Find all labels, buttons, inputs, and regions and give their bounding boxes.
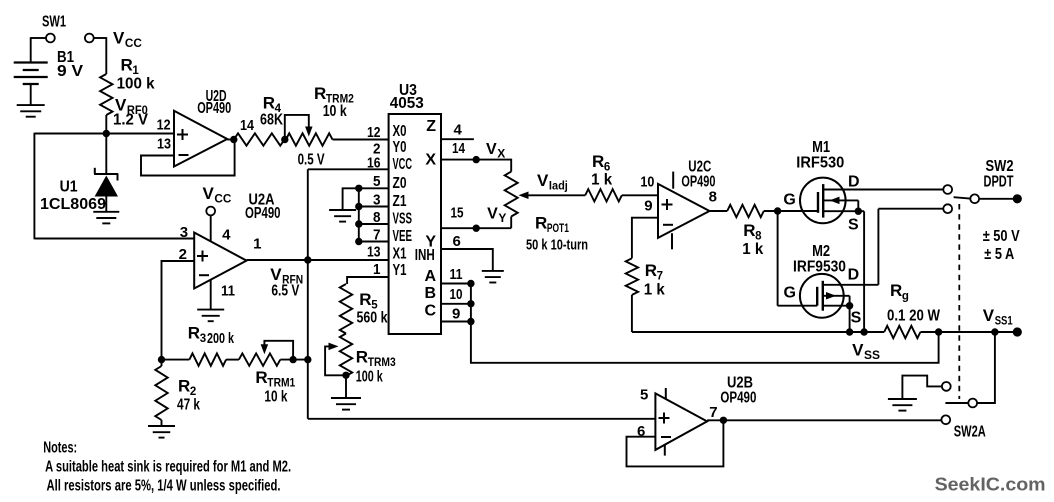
svg-text:14: 14	[452, 140, 466, 157]
resistor R3	[189, 353, 226, 365]
label M1	[812, 139, 830, 156]
svg-text:R: R	[121, 56, 133, 75]
label pin 11	[450, 266, 463, 283]
label pin 1	[253, 236, 261, 253]
U3 left pin names	[393, 123, 413, 279]
svg-text:1 k: 1 k	[742, 241, 763, 258]
terminal SW2 throw1	[943, 185, 952, 194]
svg-text:VCC: VCC	[393, 156, 413, 173]
label U2A OP490	[245, 205, 281, 222]
svg-text:SW2A: SW2A	[954, 424, 986, 441]
label pin 10c	[640, 174, 654, 191]
svg-text:SS: SS	[864, 350, 880, 362]
label U2D	[206, 88, 227, 105]
label IRF9530	[793, 259, 846, 276]
svg-text:VSS: VSS	[393, 210, 413, 227]
label R2 value	[177, 397, 200, 414]
wire VSS rail left	[632, 331, 884, 333]
wire R3 lead	[162, 359, 190, 361]
label R7	[645, 261, 663, 283]
op-amp U2C	[658, 172, 710, 250]
wire node to U2D+	[34, 133, 174, 135]
label RPOT1	[535, 214, 569, 236]
svg-text:V: V	[537, 171, 549, 190]
label 0.5V	[298, 152, 325, 169]
wire U3 pin4 stub	[441, 138, 474, 140]
label RTRM3 value	[356, 369, 383, 386]
svg-text:M1: M1	[812, 139, 830, 156]
label SW2	[986, 158, 1014, 175]
wire battery to SW1 terminal	[31, 37, 46, 62]
svg-text:10 k: 10 k	[323, 103, 347, 120]
battery B1	[14, 63, 48, 106]
label pin 8	[709, 189, 717, 206]
wire M2 source to VSS	[849, 306, 851, 332]
svg-text:CC: CC	[125, 38, 142, 50]
note line 2	[47, 477, 281, 494]
label RTRM3	[356, 348, 396, 370]
svg-text:IRF9530: IRF9530	[793, 259, 846, 276]
label R8	[743, 221, 762, 243]
svg-text:Notes:: Notes:	[43, 439, 77, 456]
svg-text:14: 14	[240, 117, 255, 134]
svg-text:V: V	[983, 306, 995, 325]
svg-text:± 5 A: ± 5 A	[984, 246, 1014, 263]
op-amp U2D	[174, 111, 227, 167]
label R1	[121, 56, 140, 78]
label pin 14	[240, 117, 255, 134]
label +-50V	[983, 228, 1020, 245]
svg-text:g: g	[902, 291, 909, 303]
svg-text:VEE: VEE	[393, 228, 413, 245]
label VSS	[852, 341, 880, 363]
svg-text:R: R	[263, 94, 275, 113]
label pin 10	[450, 286, 463, 303]
svg-text:Z0: Z0	[393, 175, 407, 192]
label R6 value	[591, 172, 612, 189]
ground below B1	[17, 105, 45, 117]
wire VSS1 to pole	[977, 332, 995, 403]
terminal SW2B pole	[968, 399, 977, 408]
label U3 pin 2	[373, 141, 381, 158]
svg-text:R: R	[535, 214, 547, 233]
label M2	[812, 243, 830, 260]
wire U2D output	[227, 139, 236, 141]
svg-text:Z1: Z1	[393, 193, 407, 210]
svg-text:100 k: 100 k	[117, 76, 155, 93]
note line 1	[45, 458, 291, 475]
note title	[43, 439, 77, 456]
node VY	[473, 225, 480, 232]
svg-text:SW1: SW1	[42, 14, 66, 31]
svg-text:15: 15	[451, 205, 464, 222]
wire U3 pin14 to pot	[441, 160, 511, 172]
wire RTRM3 to ground	[345, 375, 347, 398]
svg-text:CC: CC	[214, 194, 231, 206]
resistor Rg	[884, 326, 920, 338]
svg-text:68K: 68K	[260, 112, 283, 129]
IC U3 4053 box	[389, 114, 441, 334]
svg-text:9 V: 9 V	[57, 63, 83, 80]
label pin 15	[451, 205, 464, 222]
label S M2	[851, 309, 862, 326]
label VCC U2A	[203, 184, 232, 206]
wire U2B out to SW2A	[707, 419, 941, 421]
svg-text:G: G	[784, 285, 796, 302]
label G M2	[784, 285, 796, 302]
svg-text:B: B	[424, 285, 436, 302]
svg-text:R: R	[743, 221, 755, 240]
label 4053	[390, 95, 424, 112]
svg-text:13: 13	[367, 243, 381, 260]
wire R1 bottom	[105, 115, 107, 134]
node M1S rail	[860, 328, 867, 335]
svg-text:M2: M2	[812, 243, 830, 260]
label pin 3	[180, 224, 188, 241]
svg-text:SW2: SW2	[986, 158, 1014, 175]
svg-text:OP490: OP490	[245, 205, 281, 222]
terminal SW2 throw2	[943, 204, 952, 213]
label pin 4u	[222, 227, 231, 244]
wire U3 pin16	[308, 168, 389, 170]
svg-text:G: G	[783, 192, 795, 209]
svg-text:12: 12	[367, 124, 381, 141]
resistor R1	[100, 74, 112, 115]
svg-text:V: V	[852, 341, 864, 360]
wire U2B feedback	[627, 420, 724, 466]
svg-text:X0: X0	[393, 123, 407, 140]
resistor R5	[340, 284, 352, 334]
wire U2A pin11 stub	[210, 280, 212, 310]
svg-text:3: 3	[200, 333, 206, 345]
svg-text:TRM3: TRM3	[368, 357, 396, 369]
wire U2D feedback	[141, 140, 235, 176]
svg-text:Y1: Y1	[393, 262, 407, 279]
label U3 pin 1	[373, 261, 381, 278]
node M2S rail	[846, 328, 853, 335]
label D M2	[848, 267, 860, 284]
node U2D output	[230, 136, 237, 143]
label R3 value	[207, 330, 234, 347]
svg-text:Iadj: Iadj	[549, 181, 568, 193]
resistor R2	[155, 360, 167, 426]
node VSS rail split	[935, 328, 942, 335]
svg-text:X1: X1	[393, 246, 407, 263]
svg-text:4053: 4053	[390, 95, 424, 112]
svg-text:4: 4	[454, 122, 463, 139]
svg-text:100 k: 100 k	[356, 369, 383, 386]
label U3 pin 16	[367, 155, 381, 172]
label U3 pin 13	[367, 243, 381, 260]
label R8 value	[742, 241, 763, 258]
svg-text:560 k: 560 k	[357, 310, 388, 327]
svg-text:X: X	[497, 147, 505, 161]
ground U3 pin6	[482, 271, 504, 283]
resistor R4	[234, 133, 285, 145]
label U2B OP490	[720, 390, 756, 407]
label pin 7	[709, 404, 717, 421]
svg-text:7: 7	[709, 404, 717, 421]
dashed gang line	[958, 204, 960, 399]
label RTRM1	[255, 368, 295, 390]
wire U3 Y1 to R5	[347, 277, 389, 284]
svg-text:± 50 V: ± 50 V	[983, 228, 1020, 245]
svg-text:V: V	[203, 184, 215, 203]
label U3	[399, 82, 417, 99]
node gate split	[774, 207, 781, 214]
label R1 value	[117, 76, 155, 93]
wire VRFN vertical rail	[307, 169, 309, 418]
label IRF530	[796, 155, 844, 172]
terminal SW2B throw ground	[942, 382, 951, 391]
svg-text:INH: INH	[415, 247, 435, 264]
watermark SeekIC.com	[935, 473, 1046, 494]
label R6	[592, 152, 610, 174]
label pin 14r	[452, 140, 466, 157]
svg-text:OP490: OP490	[197, 100, 231, 117]
wires U3 pins 5-3-8-7	[359, 188, 389, 243]
terminal SW1	[46, 34, 55, 43]
svg-text:10: 10	[450, 286, 463, 303]
resistor R8	[727, 205, 764, 217]
wire VCC to R1	[94, 37, 107, 74]
wire U2C out	[710, 210, 728, 212]
label pin 12	[157, 117, 171, 134]
svg-text:R: R	[188, 324, 200, 343]
label B1 9V	[57, 49, 83, 80]
svg-text:0.1 20 W: 0.1 20 W	[887, 308, 941, 325]
wire R8 to M1 gate	[764, 210, 818, 212]
wiper arrow RPOT1	[519, 192, 586, 200]
svg-text:13: 13	[157, 136, 171, 153]
svg-text:S: S	[851, 309, 862, 326]
svg-text:V: V	[270, 265, 282, 284]
wire SW2B ground throw	[902, 376, 941, 399]
transistor M1	[800, 178, 943, 224]
svg-text:X: X	[425, 151, 436, 168]
ground below R2	[148, 426, 175, 438]
label VRF0	[115, 96, 148, 118]
node VSS1	[991, 328, 998, 335]
label R3	[188, 324, 206, 346]
svg-text:OP490: OP490	[720, 390, 756, 407]
label U3 pin 12	[367, 124, 381, 141]
svg-text:3: 3	[180, 224, 188, 241]
label 1CL8069	[40, 196, 106, 213]
label pin 11u	[221, 283, 235, 300]
potentiometer RPOT1	[505, 172, 518, 229]
ground U2A	[197, 310, 224, 322]
label D M1	[848, 174, 860, 191]
label U2C	[688, 159, 711, 176]
svg-text:1CL8069: 1CL8069	[40, 196, 106, 213]
svg-text:V: V	[486, 141, 497, 158]
label R5	[359, 290, 378, 312]
label SW2A	[954, 424, 986, 441]
svg-text:12: 12	[157, 117, 171, 134]
label pin 13	[157, 136, 171, 153]
wire VRFN to U3 X1	[247, 259, 389, 261]
terminal VCC U2A	[206, 207, 215, 216]
node RTRM1-rail	[304, 356, 311, 363]
U3 right pin names	[415, 118, 437, 320]
label pin 9	[452, 306, 460, 323]
wire R3-RTRM1	[226, 359, 239, 361]
label U3 pin 7	[373, 227, 381, 244]
label pin 5	[640, 387, 648, 404]
ground below U1	[93, 212, 119, 224]
wire gate down to M2	[778, 211, 818, 306]
wire ABC bus to VSS node	[471, 283, 939, 363]
node R2-R3	[158, 356, 165, 363]
label Rg value	[887, 308, 941, 325]
zener diode U1	[94, 168, 118, 212]
label R4	[263, 94, 282, 116]
svg-text:1 k: 1 k	[644, 282, 665, 299]
svg-text:SeekIC.com: SeekIC.com	[935, 473, 1046, 494]
node VRF0	[103, 130, 110, 137]
junction dots ABC	[467, 280, 474, 325]
svg-text:6: 6	[453, 233, 461, 250]
label S M1	[848, 217, 859, 234]
svg-text:S: S	[848, 217, 859, 234]
label R2	[178, 377, 196, 399]
resistor R6	[585, 189, 622, 201]
junction dots pins 5-3-8-7	[355, 185, 362, 246]
label U3 pin 3	[373, 192, 381, 209]
svg-text:Y: Y	[498, 211, 506, 225]
wire Rg to VSS1	[920, 331, 1017, 333]
wire U2A minus loop	[162, 261, 195, 360]
svg-text:IRF530: IRF530	[796, 155, 844, 172]
svg-text:A: A	[424, 268, 436, 285]
node M2 source	[846, 302, 853, 309]
op-amp U2A	[194, 233, 246, 289]
svg-text:11: 11	[221, 283, 235, 300]
svg-text:R: R	[359, 290, 371, 309]
wire node to U1	[105, 134, 107, 175]
svg-text:6.5 V: 6.5 V	[271, 283, 299, 300]
trimmer RTRM1	[239, 341, 308, 366]
trimmer RTRM2	[285, 115, 333, 146]
terminal SW2 pole	[970, 194, 979, 203]
node R4-RTRM2	[281, 136, 288, 143]
svg-text:Y0: Y0	[393, 139, 407, 156]
label Vladj	[537, 171, 568, 193]
label R5 value	[357, 310, 388, 327]
node M1 source	[855, 208, 862, 215]
svg-text:11: 11	[450, 266, 463, 283]
svg-text:10: 10	[640, 174, 654, 191]
node RTRM3 bottom	[342, 372, 349, 379]
svg-text:R: R	[890, 281, 902, 300]
wire VCC stub U2A	[210, 215, 212, 241]
label 6.5V	[271, 283, 299, 300]
svg-text:D: D	[848, 267, 860, 284]
label U2D OP490	[197, 100, 231, 117]
svg-text:47 k: 47 k	[177, 397, 200, 414]
label VSS1	[983, 306, 1013, 328]
svg-text:4: 4	[222, 227, 231, 244]
svg-text:Z: Z	[426, 118, 436, 135]
svg-text:200 k: 200 k	[207, 330, 234, 347]
lever SW2	[954, 197, 971, 198]
label pin 9c	[644, 198, 652, 215]
svg-text:R: R	[255, 368, 267, 387]
wire to U3 ground	[343, 188, 359, 210]
label pin 2	[179, 246, 187, 263]
svg-text:D: D	[848, 174, 860, 191]
wire U3 pin15 to pot	[441, 227, 511, 229]
lever SW2B	[945, 402, 968, 404]
label RTRM2	[314, 84, 354, 106]
svg-text:R: R	[314, 84, 326, 103]
svg-text:1: 1	[373, 261, 381, 278]
svg-text:A suitable heat sink is requir: A suitable heat sink is required for M1 …	[45, 458, 291, 475]
wires U3 pins 11-10-9	[441, 284, 471, 322]
label pin 6b	[637, 423, 645, 440]
svg-text:50 k 10-turn: 50 k 10-turn	[526, 237, 588, 254]
trimmer RTRM3	[325, 334, 352, 377]
svg-text:1: 1	[253, 236, 261, 253]
svg-text:R: R	[645, 261, 657, 280]
svg-text:DPDT: DPDT	[984, 174, 1014, 191]
svg-text:POT1: POT1	[547, 223, 569, 235]
svg-text:8: 8	[709, 189, 717, 206]
ground U3 pins	[329, 210, 356, 222]
wire RTRM2 to U3	[333, 139, 389, 141]
resistor R7	[626, 258, 638, 295]
ground below RTRM3	[331, 398, 361, 410]
node VX	[473, 156, 480, 163]
op-amp U2B	[655, 388, 707, 456]
transistor M2	[800, 274, 879, 318]
node VRFN-vertical	[304, 256, 311, 263]
label R7 value	[644, 282, 665, 299]
svg-text:R: R	[592, 152, 604, 171]
svg-text:9: 9	[452, 306, 460, 323]
label DPDT	[984, 174, 1014, 191]
label VX	[486, 141, 505, 161]
label Rg	[890, 281, 909, 303]
svg-text:V: V	[487, 206, 498, 223]
svg-text:SS1: SS1	[995, 316, 1013, 328]
svg-text:U1: U1	[60, 179, 78, 196]
svg-text:1 k: 1 k	[591, 172, 612, 189]
svg-text:All resistors are 5%, 1/4 W un: All resistors are 5%, 1/4 W unless speci…	[47, 477, 281, 494]
label RPOT1 value	[526, 237, 588, 254]
label RTRM1 value	[264, 389, 287, 406]
label pin 6	[453, 233, 461, 250]
svg-text:1.2 V: 1.2 V	[113, 112, 148, 129]
svg-text:0.5 V: 0.5 V	[298, 152, 325, 169]
label VCC top	[113, 29, 142, 51]
label U3 pin 5	[373, 173, 381, 190]
label U3 pin 8	[373, 209, 381, 226]
wire U3 pin6 to ground	[441, 249, 493, 271]
terminal SW2A throw	[941, 415, 950, 424]
node U2B out	[720, 417, 727, 424]
svg-text:V: V	[113, 29, 125, 48]
label U1	[60, 179, 78, 196]
wire R6 to U2C	[622, 194, 658, 196]
wire left rail down	[34, 133, 194, 240]
node RTRM1 tap	[289, 356, 296, 363]
wire M1 source to VSS	[863, 211, 865, 332]
label 1.2V	[113, 112, 148, 129]
ground SW2B	[888, 399, 917, 411]
wire M2 drain up	[878, 209, 943, 285]
